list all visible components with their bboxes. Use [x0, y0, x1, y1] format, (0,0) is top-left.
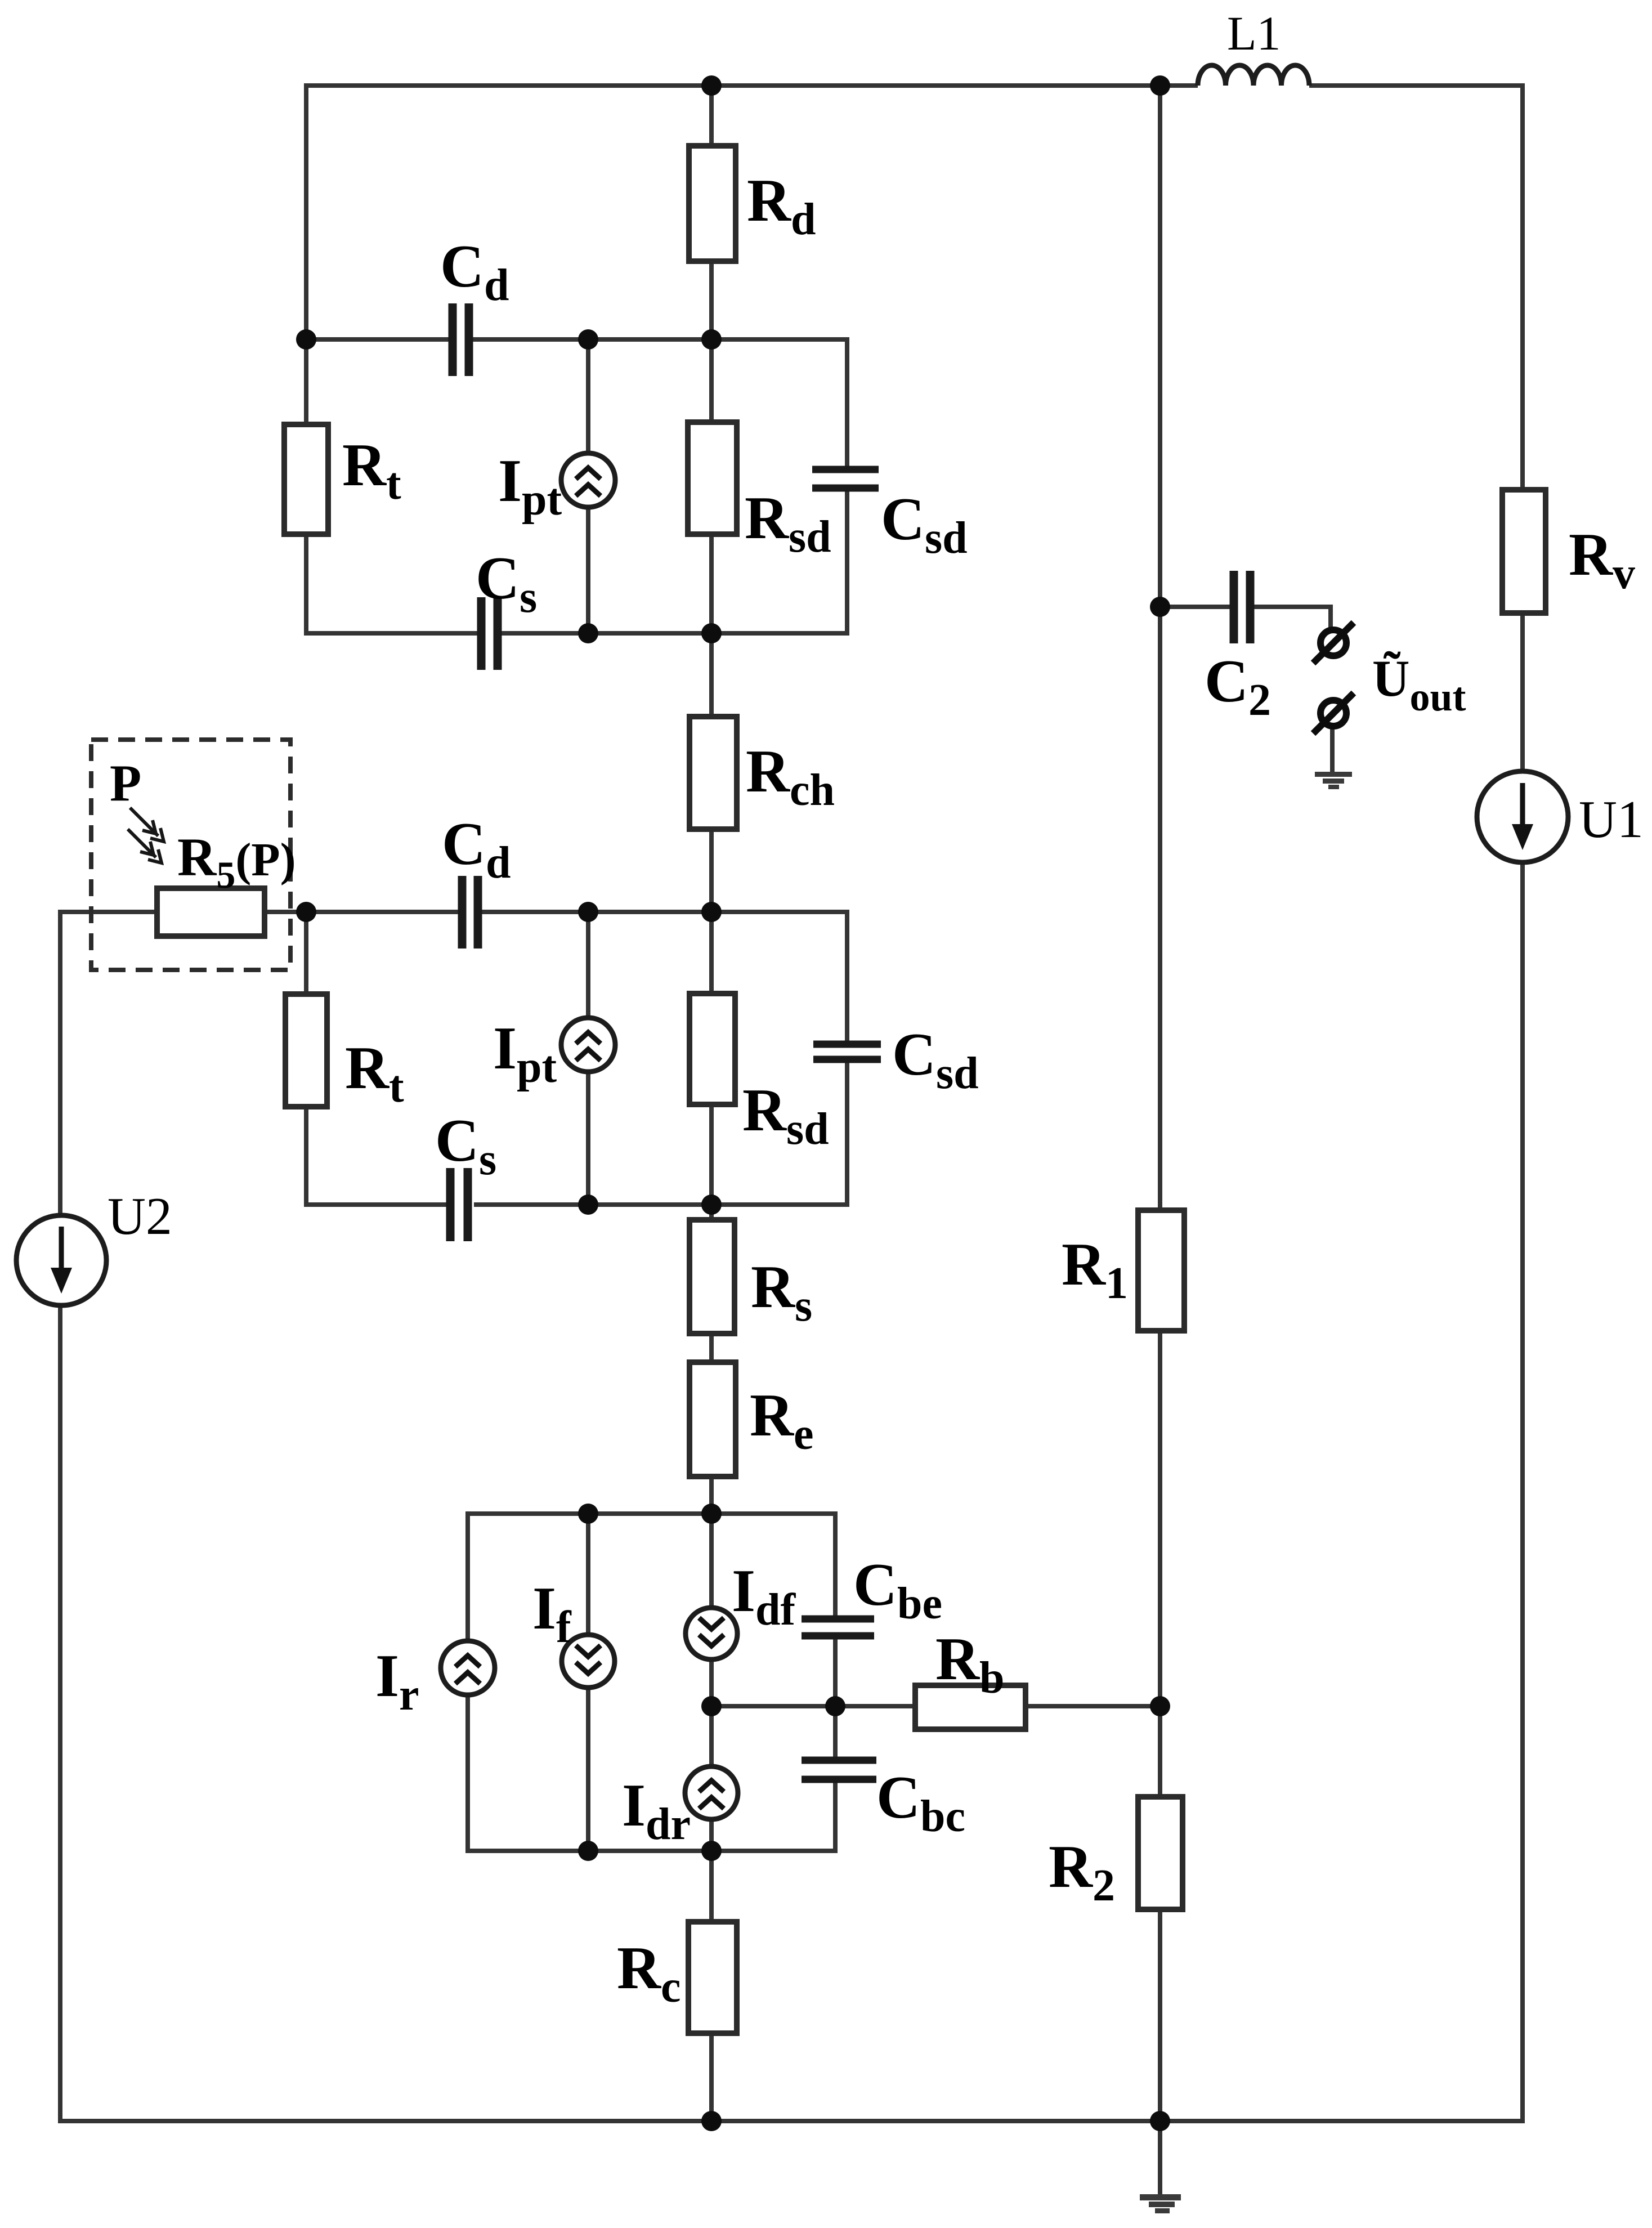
resistor R2: [1138, 1797, 1183, 1909]
node Cs2 row main: [701, 1194, 722, 1215]
resistor Rc: [688, 1922, 737, 2033]
wire R5 row left: [60, 912, 458, 914]
node Cs row Ipt: [578, 623, 598, 643]
current source Idf: [686, 1608, 737, 1659]
wire Cs row 2 right: [474, 1063, 847, 1205]
ground (main): [1140, 2194, 1181, 2200]
If arrows: [576, 1645, 601, 1674]
wire Ipt branch 2: [586, 912, 590, 1207]
wire Ipt branch 1: [586, 339, 590, 636]
wire ground stub: [1158, 2121, 1162, 2194]
wire Cbe branch lower: [833, 1639, 838, 1757]
Ipt lower arrows: [576, 1032, 601, 1061]
resistor Rv: [1502, 490, 1546, 613]
wire base row to Rb: [711, 1704, 1160, 1708]
node box bottom If: [578, 1841, 598, 1861]
capacitor Cbe: [802, 1619, 874, 1636]
node Cd2 row main: [701, 902, 722, 922]
wire transistor box top: [468, 1511, 835, 1516]
Ipt upper arrows: [576, 468, 601, 496]
capacitor Cs (lower cell): [450, 1168, 468, 1241]
current source Idr: [685, 1766, 738, 1819]
Idf arrows: [699, 1618, 724, 1646]
wire Rt branch 2: [304, 910, 308, 1207]
resistor Re: [690, 1362, 736, 1477]
wire Cs row 1 right: [501, 491, 847, 633]
node box bottom main: [701, 1841, 722, 1861]
wire Cd row 2 right: [481, 912, 847, 1041]
current source Ir: [441, 1641, 495, 1695]
node box top main: [701, 1504, 722, 1524]
node Rb right: [1150, 1696, 1170, 1716]
wire top rail: [306, 86, 1198, 636]
voltage source U1: [1477, 771, 1568, 862]
capacitor Cs (upper cell): [481, 597, 498, 670]
wire Cd row right: [471, 339, 847, 466]
capacitor C2: [1234, 571, 1250, 643]
wire Cbc branch lower: [833, 1783, 838, 1853]
node C2 tap: [1150, 597, 1170, 617]
resistor Rt (upper photodiode cell): [284, 424, 328, 534]
svg-text:P: P: [110, 754, 141, 812]
capacitor Csd (lower cell): [813, 1044, 881, 1059]
wire Cs row 1 left: [304, 631, 477, 636]
svg-text:L1: L1: [1227, 6, 1281, 60]
node Cd2 row Ipt: [578, 902, 598, 922]
capacitor Csd (upper cell): [812, 469, 879, 488]
node base Cbc: [825, 1696, 845, 1716]
U1 arrow: [1512, 783, 1533, 850]
capacitor Cbc: [802, 1760, 876, 1779]
light arrow 2: [128, 829, 156, 857]
wire Cd row left: [304, 337, 450, 342]
capacitor Cd (lower cell): [462, 876, 478, 949]
wire C2 stub left: [1160, 605, 1230, 609]
node Cd row Ipt: [578, 329, 598, 350]
wire transistor box bottom: [468, 1849, 835, 1853]
svg-text:R5(P): R5(P): [177, 827, 296, 896]
node base mid: [701, 1696, 722, 1716]
wire Cbe branch upper: [833, 1511, 838, 1616]
resistor R1: [1138, 1210, 1184, 1331]
inductor L1: [1198, 65, 1309, 86]
node Cd row main: [701, 329, 722, 350]
node box top If: [578, 1504, 598, 1524]
node after R5: [296, 902, 316, 922]
node Cs2 row Ipt: [578, 1194, 598, 1215]
capacitor Cd (upper cell): [453, 303, 469, 376]
resistor Rch: [690, 717, 737, 829]
node top right (L1 input): [1150, 75, 1170, 96]
node bottom right: [1150, 2111, 1170, 2131]
wire output to ground: [1330, 726, 1335, 773]
current source If: [562, 1635, 615, 1688]
wire top rail right of L1: [1309, 83, 1523, 88]
resistor Rsd (lower photodiode cell): [690, 994, 735, 1104]
Idr arrows: [699, 1780, 724, 1809]
light arrow 1: [130, 808, 158, 836]
U2 arrow: [51, 1227, 72, 1294]
output terminal lower: [1320, 700, 1346, 726]
wire Ir branch: [465, 1511, 470, 1853]
dashed enclosure P: [91, 740, 290, 970]
node Cs row main: [701, 623, 722, 643]
wire R1 R2 column: [1158, 83, 1162, 2121]
resistor R5(P) photoresistor: [157, 888, 265, 936]
resistor Rs: [690, 1220, 735, 1334]
node top center: [701, 75, 722, 96]
resistor Rb: [915, 1685, 1026, 1729]
svg-text:U1: U1: [1579, 790, 1644, 849]
wire main column: [709, 83, 714, 2121]
output terminal upper: [1320, 630, 1346, 656]
current source Ipt (upper cell): [561, 453, 615, 507]
ground (output): [1315, 772, 1352, 777]
node Cd row left: [296, 329, 316, 350]
voltage source U2: [16, 1215, 106, 1305]
terminal slash upper: [1313, 623, 1354, 663]
node bottom center: [701, 2111, 722, 2131]
wire If branch: [586, 1514, 590, 1853]
wire Cs row 2 left: [304, 1202, 449, 1207]
resistor Rsd (upper photodiode cell): [688, 422, 737, 534]
resistor Rt (lower photodiode cell): [285, 994, 327, 1107]
Ir arrows: [455, 1656, 480, 1684]
terminal slash lower: [1313, 693, 1354, 733]
wire C2 stub right: [1253, 607, 1331, 630]
svg-text:U2: U2: [108, 1187, 172, 1246]
current source Ipt (lower cell): [561, 1018, 615, 1072]
resistor Rd: [689, 146, 736, 261]
